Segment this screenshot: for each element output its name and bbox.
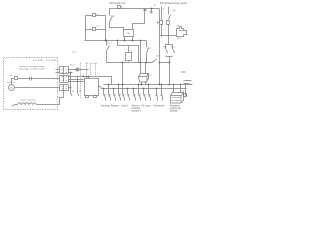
contact K1.2 bbox=[146, 41, 148, 48]
svg-text:Snorkus: Snorkus bbox=[7, 82, 14, 84]
buzzer H1 bbox=[161, 35, 163, 37]
motor top lead bbox=[12, 79, 60, 85]
svg-text:Command mod: Command mod bbox=[109, 2, 126, 5]
capacitor C4 leads bbox=[140, 41, 142, 74]
wire row6 bbox=[69, 87, 72, 89]
fuse F2 bbox=[93, 28, 96, 31]
svg-text:Gewuns conjunta: Gewuns conjunta bbox=[20, 99, 36, 102]
svg-text:Rcswter: Rcswter bbox=[111, 105, 119, 108]
bottom bus L1 bbox=[104, 84, 193, 86]
thermal fuse bbox=[15, 77, 18, 80]
provisioning rail R bbox=[168, 7, 170, 15]
svg-text:Fwchwndw: Fwchwndw bbox=[153, 106, 165, 108]
relay coil KM bbox=[124, 30, 134, 37]
motor M1 bbox=[9, 85, 15, 91]
pump 3D box bbox=[171, 96, 182, 104]
wire to KM coil bbox=[110, 22, 124, 30]
connector X2 middle bbox=[60, 76, 69, 83]
stub mark bbox=[181, 71, 186, 73]
heater wires bbox=[12, 105, 18, 107]
dashed mech links bbox=[87, 65, 96, 77]
branch group E bbox=[141, 85, 151, 108]
dashed wall border bbox=[80, 63, 82, 99]
branch group B bbox=[111, 85, 121, 108]
thermostat contacts 45/40 bbox=[166, 45, 173, 49]
wire A top horizontal bbox=[110, 8, 160, 10]
svg-text:M: M bbox=[10, 86, 12, 90]
svg-text:Jelzo k: Jelzo k bbox=[121, 106, 129, 108]
wire KM to earth bbox=[133, 11, 145, 30]
resistor R bbox=[126, 53, 132, 61]
contact D4.1 bbox=[110, 17, 113, 22]
svg-text:szwmtz kw: szwmtz kw bbox=[170, 107, 181, 110]
bus terminator bbox=[184, 80, 192, 82]
wire row1 with lamp bbox=[69, 69, 76, 71]
wire to dropper bbox=[160, 62, 170, 64]
fuse F3 bbox=[160, 21, 163, 25]
wire row5 bbox=[69, 81, 85, 83]
connector X3 lower bbox=[60, 85, 69, 91]
branch group C bbox=[121, 85, 130, 108]
wire row4 bbox=[69, 79, 85, 81]
svg-text:KM: KM bbox=[127, 33, 130, 35]
ground symbol PE bbox=[151, 9, 153, 12]
wire loop drops bbox=[85, 30, 87, 41]
branch group F bbox=[153, 85, 165, 108]
branch group D bbox=[131, 85, 142, 113]
pump legs bbox=[174, 85, 181, 93]
rail PE vertical bbox=[159, 9, 161, 85]
svg-text:Prestwme: Prestwme bbox=[170, 105, 181, 108]
fuse F4 bbox=[167, 21, 170, 25]
connector X1 upper bbox=[60, 67, 69, 74]
contact S2 bbox=[169, 15, 171, 20]
contact K1.1 bbox=[106, 41, 108, 46]
bus B1 y40 bbox=[85, 40, 147, 42]
bottom bus L2 bbox=[102, 88, 187, 90]
svg-text:(kblwck): (kblwck) bbox=[170, 111, 179, 113]
wire row2 bbox=[69, 72, 73, 74]
svg-text:csempe k: csempe k bbox=[131, 111, 142, 113]
branch group A bbox=[101, 85, 111, 108]
svg-text:Provisioning mod: Provisioning mod bbox=[160, 2, 187, 5]
capacitor C4 can bbox=[139, 77, 148, 83]
wire stubs left bbox=[56, 70, 60, 73]
svg-text:A5 cswcs: A5 cswcs bbox=[141, 105, 151, 108]
heater coil bbox=[18, 103, 37, 105]
fuse loop bbox=[86, 16, 106, 30]
svg-text:LP 025 T.G 025: LP 025 T.G 025 bbox=[33, 60, 58, 62]
lamp b1 on wire A bbox=[118, 6, 121, 9]
pressure switch box bbox=[85, 79, 99, 96]
wire row3 long bbox=[69, 77, 112, 85]
svg-text:dialog monitoring: dialog monitoring bbox=[20, 67, 45, 70]
dashed enclosure box bbox=[4, 58, 58, 110]
svg-text:[M]: [M] bbox=[173, 10, 176, 12]
bus B2 y62 bbox=[107, 62, 153, 64]
resistor feed path bbox=[117, 41, 119, 46]
fuse F1 bbox=[93, 14, 96, 17]
provisioning rail L bbox=[161, 7, 163, 36]
wire left drop bbox=[109, 9, 111, 16]
KM pillars bbox=[124, 37, 126, 41]
svg-text:Gwmvajc: Gwmvajc bbox=[101, 106, 111, 108]
motor right lead bbox=[15, 87, 60, 89]
capacitor inline bbox=[30, 77, 32, 81]
svg-text:szelektor: szelektor bbox=[131, 107, 140, 110]
